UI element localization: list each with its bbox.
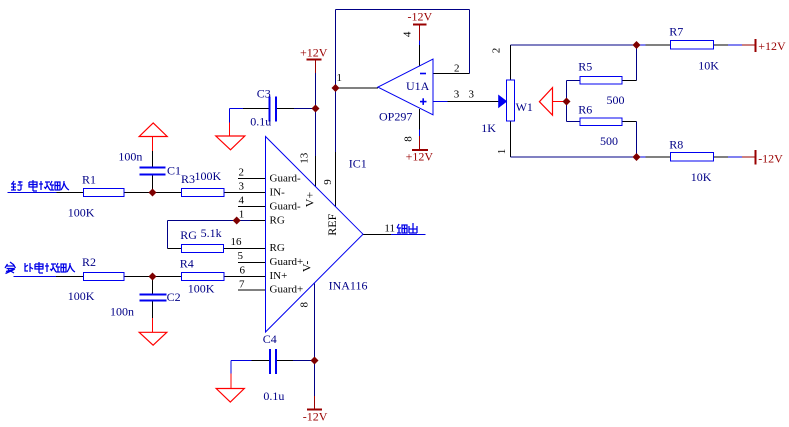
svg-text:Guard+: Guard+	[270, 284, 304, 296]
svg-text:W1: W1	[516, 100, 533, 114]
wire R6 left lead	[567, 121, 581, 123]
resistor R6	[580, 118, 622, 126]
wire C4 left	[231, 360, 270, 362]
svg-text:10K: 10K	[691, 170, 712, 184]
net label input row2 (Chinese)	[5, 262, 75, 274]
svg-text:2: 2	[454, 63, 460, 75]
potentiometer W1 body	[507, 80, 515, 121]
wire C3 right to V+ net	[276, 108, 316, 110]
svg-text:R2: R2	[82, 255, 96, 269]
svg-text:1: 1	[496, 149, 508, 155]
svg-text:Guard+: Guard+	[270, 256, 304, 268]
svg-text:R4: R4	[180, 257, 194, 271]
svg-text:R3: R3	[181, 172, 195, 186]
junction node row2 C2	[149, 273, 157, 281]
svg-text:1K: 1K	[481, 121, 496, 135]
svg-text:7: 7	[239, 279, 245, 291]
wire input row1 lead	[8, 192, 84, 194]
junction node V+ C3	[312, 105, 320, 113]
wire row2 R4 to pin 6	[224, 276, 266, 278]
junction node op-amp pin1 / REF	[332, 84, 340, 92]
pin 7 stub INA	[238, 289, 266, 291]
svg-text:8: 8	[403, 136, 415, 142]
svg-text:OP297: OP297	[379, 110, 412, 124]
op-amp U1A plus input mark	[420, 98, 427, 105]
capacitor C1	[140, 168, 166, 175]
net label input row1 (Chinese)	[11, 180, 69, 191]
svg-text:Guard-: Guard-	[270, 173, 301, 185]
svg-text:R6: R6	[578, 103, 592, 117]
svg-text:-12V: -12V	[303, 410, 328, 424]
svg-text:3: 3	[469, 89, 475, 101]
svg-text:R1: R1	[82, 173, 96, 187]
resistor RG	[182, 245, 224, 253]
svg-text:11: 11	[384, 223, 395, 235]
svg-text:2: 2	[491, 48, 503, 54]
wire R5-R6 left vertical	[566, 81, 568, 122]
svg-text:3: 3	[454, 89, 460, 101]
resistor R1	[84, 189, 125, 197]
ground at C3	[216, 136, 245, 150]
svg-text:1: 1	[239, 209, 245, 221]
svg-text:13: 13	[299, 152, 311, 164]
svg-text:4: 4	[402, 31, 414, 37]
wire RG loop vertical	[167, 221, 169, 249]
wire pin 8 V- vertical INA	[314, 284, 316, 410]
wire row1 R1 to R3	[124, 192, 182, 194]
wire R5 right lead	[622, 45, 637, 81]
svg-text:C2: C2	[167, 290, 181, 304]
wire output	[363, 234, 426, 236]
arrow left at R5/R6 node	[539, 88, 552, 116]
svg-text:500: 500	[607, 93, 625, 107]
svg-text:R7: R7	[669, 25, 683, 39]
capacitor C4	[270, 349, 276, 374]
resistor R7	[671, 41, 714, 50]
svg-text:100n: 100n	[118, 150, 142, 164]
potentiometer W1 wiper arrow	[499, 96, 507, 108]
svg-text:9: 9	[322, 179, 334, 185]
svg-text:4: 4	[239, 195, 245, 207]
wire bottom row W1 to R8	[511, 156, 671, 158]
wire op-amp pin 1 to node	[336, 87, 379, 89]
wire arrow tail	[553, 101, 567, 103]
svg-text:RG: RG	[180, 228, 197, 242]
resistor R4	[182, 273, 225, 281]
svg-text:Guard-: Guard-	[270, 200, 301, 212]
svg-text:6: 6	[240, 265, 246, 277]
op-amp U1A instrumentation amplifier INA116 triangle	[266, 137, 364, 333]
svg-text:U1A: U1A	[406, 79, 430, 93]
wire pin 1 to RG loop	[168, 220, 266, 222]
pin 5 stub INA	[238, 262, 266, 264]
svg-text:100K: 100K	[68, 205, 95, 219]
pin 4 stub INA	[238, 206, 266, 208]
power +12V port right top	[755, 39, 757, 52]
junction node pin1 RG	[233, 217, 241, 225]
wire C3 ground drop	[229, 109, 231, 137]
svg-text:2: 2	[239, 167, 245, 179]
wire C1 stem upper	[152, 137, 154, 168]
resistor R8	[671, 153, 714, 162]
power -12V port right bottom	[755, 150, 757, 165]
wire C2 stem lower	[152, 301, 154, 333]
svg-text:R8: R8	[669, 138, 683, 152]
svg-text:+12V: +12V	[406, 150, 434, 164]
wire feedback loop right vertical	[469, 10, 471, 74]
wire R5 left lead	[567, 80, 581, 82]
pin 2 stub INA	[238, 178, 266, 180]
junction node V- C4	[311, 357, 319, 365]
svg-text:V+: V+	[303, 192, 317, 208]
junction node row1 C1	[149, 189, 157, 197]
svg-text:-12V: -12V	[758, 152, 783, 166]
wire op-amp pin 8 stem	[419, 109, 421, 150]
svg-text:R5: R5	[578, 60, 592, 74]
power -12V port op-amp	[413, 24, 427, 26]
resistor R3	[182, 189, 225, 197]
op-amp U1A minus input mark	[420, 73, 426, 75]
svg-text:+12V: +12V	[300, 46, 328, 60]
capacitor C3	[270, 97, 277, 122]
power +12V port op-amp	[412, 149, 428, 151]
svg-text:IN+: IN+	[270, 270, 288, 282]
junction node bottom row	[633, 153, 641, 161]
wire C3 left	[230, 108, 270, 110]
svg-text:100K: 100K	[68, 289, 95, 303]
svg-text:IC1: IC1	[349, 157, 367, 171]
resistor R2	[84, 273, 125, 281]
wire R7 to +12V	[714, 44, 756, 46]
wire R6 right lead	[622, 122, 637, 158]
net label output (Chinese)	[397, 223, 417, 233]
wire C4 ground drop	[230, 361, 232, 389]
power -12V port INA bottom	[307, 409, 322, 411]
svg-text:INA116: INA116	[329, 279, 368, 293]
wire C2 stem upper	[152, 277, 154, 295]
svg-text:3: 3	[239, 181, 245, 193]
svg-text:0.1u: 0.1u	[250, 115, 271, 129]
svg-text:-12V: -12V	[408, 10, 433, 24]
wire op-amp pin 3 to wiper	[434, 101, 499, 103]
wire top row W1 to R7	[511, 44, 671, 46]
wire pin 9 REF feedback vertical	[335, 10, 337, 207]
svg-text:1: 1	[337, 72, 343, 84]
wire pin 13 V+ vertical	[315, 73, 317, 187]
svg-text:+12V: +12V	[758, 39, 786, 53]
svg-text:8: 8	[299, 301, 311, 307]
wire RG to pin 16	[224, 248, 266, 250]
svg-text:0.1u: 0.1u	[263, 389, 284, 403]
resistor R5	[580, 77, 622, 85]
wire R8 to -12V	[714, 156, 756, 158]
svg-text:5.1k: 5.1k	[201, 226, 222, 240]
svg-text:5: 5	[238, 250, 244, 262]
wire feedback loop top	[336, 9, 470, 11]
svg-text:REF: REF	[325, 213, 339, 235]
svg-text:RG: RG	[270, 242, 285, 254]
ground below C2	[139, 332, 167, 345]
svg-text:IN-: IN-	[270, 186, 286, 198]
capacitor C2	[140, 295, 167, 301]
svg-text:RG: RG	[270, 214, 285, 226]
wire op-amp pin 4 stem	[419, 25, 421, 67]
svg-text:100n: 100n	[110, 305, 134, 319]
wire W1 pin 2 vertical	[510, 45, 512, 80]
svg-text:16: 16	[231, 236, 243, 248]
svg-text:100K: 100K	[195, 169, 222, 183]
wire W1 pin 1 vertical	[510, 121, 512, 157]
wire row2 R2 to R4	[124, 276, 182, 278]
wire C1 stem lower	[152, 175, 154, 193]
junction node R5/R6 arrow	[563, 98, 571, 106]
wire RG left lead	[168, 248, 182, 250]
svg-text:C3: C3	[257, 86, 271, 100]
svg-text:500: 500	[600, 134, 618, 148]
wire C4 right to V- net	[276, 360, 315, 362]
ground at C4	[216, 389, 244, 403]
junction node top row	[633, 41, 641, 49]
wire op-amp pin 2 stub	[434, 73, 470, 75]
arrow up above C1	[139, 123, 167, 137]
svg-text:100K: 100K	[188, 281, 215, 295]
power +12V port INA	[307, 60, 322, 74]
wire row1 R3 to pin 3	[224, 192, 266, 194]
svg-text:V-: V-	[300, 261, 314, 273]
op-amp U1A triangle	[378, 59, 433, 115]
wire input row2 lead	[14, 276, 84, 278]
svg-text:C1: C1	[167, 164, 181, 178]
svg-text:10K: 10K	[698, 59, 719, 73]
svg-text:C4: C4	[263, 332, 277, 346]
